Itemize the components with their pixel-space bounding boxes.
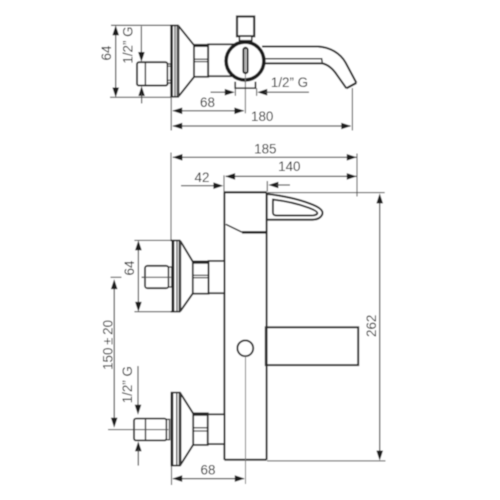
svg-text:68: 68 xyxy=(200,95,215,110)
escutcheon flange (top view) xyxy=(170,25,179,96)
body-right extension line xyxy=(266,181,268,192)
upper hex nut (front view) xyxy=(193,261,209,293)
wall extension line (bottom 68 dim) xyxy=(171,466,173,485)
upper escutcheon cone (front view) xyxy=(181,241,193,261)
valve circle (top view) xyxy=(226,42,264,80)
valve body (top view) xyxy=(208,44,238,76)
body-left extension line xyxy=(223,175,225,192)
spout tip cut (top view) xyxy=(346,83,356,88)
lower hex nut (front view) xyxy=(193,413,208,445)
svg-text:150 ± 20: 150 ± 20 xyxy=(100,320,115,370)
lever outer outline (front view) xyxy=(267,194,323,220)
upper nipple (front view) xyxy=(169,267,172,287)
body centerline (front view) xyxy=(245,356,247,484)
handle slot (top view) xyxy=(243,48,247,73)
svg-text:1/2” G: 1/2” G xyxy=(120,366,135,403)
dimension 64 (front view) xyxy=(122,240,142,312)
lever inner outline (front view) xyxy=(273,200,317,216)
wire top extension line (64 dim, top) xyxy=(111,24,171,26)
svg-text:185: 185 xyxy=(254,141,276,156)
port extension lines xyxy=(234,88,236,96)
svg-text:42: 42 xyxy=(195,170,210,185)
lower wall union block (front view) xyxy=(134,419,167,441)
upper collar (front view) xyxy=(209,261,225,293)
handle stem (top view) xyxy=(239,36,251,41)
lower nipple (front view) xyxy=(167,419,170,439)
dimension 68 (top view) xyxy=(172,95,244,114)
svg-text:140: 140 xyxy=(278,159,300,174)
wall union block (top view) xyxy=(137,62,168,85)
spout top edge (top view) xyxy=(262,47,356,83)
dimension 262 xyxy=(364,193,383,460)
wall union block inner edge (top view) xyxy=(144,62,146,85)
lower centerline through block xyxy=(134,429,168,431)
svg-text:180: 180 xyxy=(251,109,273,124)
nipple between block and flange (top view) xyxy=(168,64,172,83)
handle cap underside slant (front view) xyxy=(226,224,242,232)
upper centerline over block xyxy=(142,276,171,278)
spout (front view) xyxy=(266,327,358,365)
lower block inner edge xyxy=(145,419,147,441)
upper connection centerline segments xyxy=(111,276,122,278)
faucet body column (front view) xyxy=(224,192,266,460)
handle knob (top view) xyxy=(237,17,254,37)
lower escutcheon cone (front view) xyxy=(181,394,194,414)
outlet port below valve (top view) xyxy=(235,82,255,88)
lower connection centerline xyxy=(108,429,168,431)
spout bottom edge (top view) xyxy=(264,63,346,88)
label 1/2" G (lower connection) xyxy=(120,366,142,466)
hex nut (top view) xyxy=(194,45,208,77)
svg-text:64: 64 xyxy=(122,260,137,275)
svg-text:1/2” G: 1/2” G xyxy=(271,75,308,90)
dimension 68 (front view bottom) xyxy=(172,462,245,482)
lower collar (front view) xyxy=(208,414,225,444)
64 bottom extension line (front view) xyxy=(134,311,172,313)
label 1/2" G (top view, wall union) xyxy=(121,26,145,103)
spout inner line (top view) xyxy=(264,59,322,64)
wall extension line (below flange, top view) xyxy=(170,97,172,131)
svg-text:64: 64 xyxy=(99,45,114,60)
spout tip extension line (top view) xyxy=(351,88,353,131)
upper escutcheon flange (front view) xyxy=(171,241,181,312)
spout tip extension line (front view) xyxy=(356,154,358,197)
dimension 180 (top view) xyxy=(172,109,351,129)
dimension 185 xyxy=(172,141,356,160)
lever top extension line (262 dim, top) xyxy=(268,192,385,194)
upper wall union block (front view) xyxy=(145,266,169,288)
diverter circle (front view) xyxy=(237,340,253,356)
label 1/2" G (outlet) with arrows xyxy=(211,75,310,96)
escutcheon cone (top view) xyxy=(179,26,194,45)
wall extension line (front view, upper) xyxy=(170,153,172,241)
dimension 140 xyxy=(225,159,357,180)
lower escutcheon flange (front view) xyxy=(171,393,181,466)
svg-text:262: 262 xyxy=(364,315,379,337)
valve centerline (top view) xyxy=(244,47,246,113)
body bottom extension line (262 dim, bottom) xyxy=(267,460,386,462)
64 top extension line (front view) xyxy=(134,239,172,241)
dimension 150 +/- 20 xyxy=(100,279,117,428)
svg-text:1/2” G: 1/2” G xyxy=(121,26,136,63)
centerline inside circle xyxy=(244,48,246,113)
wire bottom extension line (64 dim, bottom) xyxy=(110,96,171,98)
nipple inner lines (top view) xyxy=(168,65,172,67)
dimension 42 xyxy=(181,170,290,189)
svg-text:68: 68 xyxy=(201,462,216,477)
dimension 64 (top view) xyxy=(99,25,119,97)
handle cap underside line (front view) xyxy=(242,231,267,234)
